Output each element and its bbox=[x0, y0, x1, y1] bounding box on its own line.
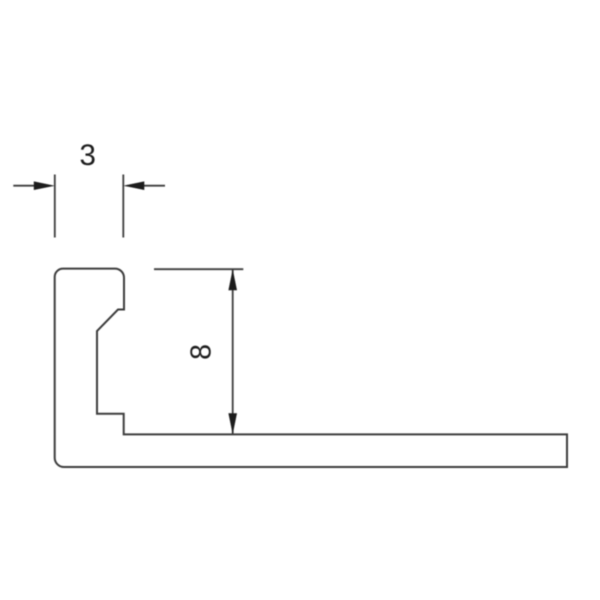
svg-text:8: 8 bbox=[186, 344, 218, 360]
svg-text:3: 3 bbox=[79, 139, 95, 172]
